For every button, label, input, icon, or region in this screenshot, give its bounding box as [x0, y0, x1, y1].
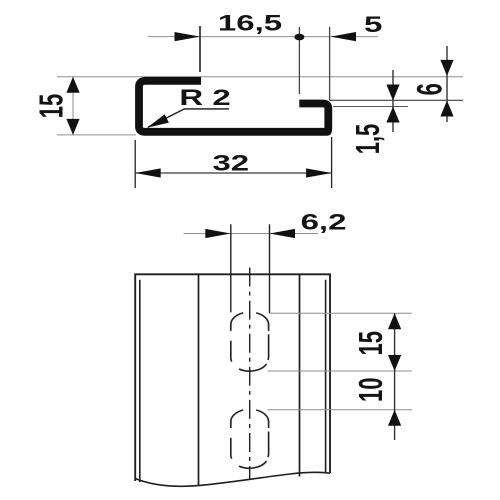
slot 1 bottom arc	[239, 364, 267, 371]
slot 2 bottom arc	[239, 461, 267, 468]
extension line 32 right (x=331.6)	[331, 137, 333, 188]
extension line 32 left (x=135.2)	[134, 140, 136, 188]
extension line slot2 top (y=409.7)	[268, 409, 413, 411]
rail front outline	[135, 274, 330, 481]
arrow dim 32 left (pointing left)	[135, 168, 161, 177]
arrow dim 6 bottom (pointing up)	[440, 101, 453, 117]
arrow slot dim middle (pointing down)	[388, 355, 401, 371]
extension line slot right (x=269.5)	[269, 224, 271, 313]
extension line hook underside (y=106.5)	[333, 106, 408, 108]
dimension line 16,5 / 5 (horizontal, y=36.6)	[148, 36, 378, 38]
fold line right (x=299.5)	[299, 274, 301, 476]
rolled edge line right (x=325.6)	[325, 280, 327, 473]
arrow dim 32 right (pointing right)	[306, 168, 332, 177]
slot 1 right side dash	[267, 334, 270, 360]
rail profile (thick C-section with hook)	[139, 81, 328, 132]
slot 2 top-right arc	[256, 410, 268, 428]
extension line hook top edge (y=100.5)	[330, 99, 463, 101]
dimension line 15 (vertical, x=73)	[72, 77, 74, 135]
svg-text:15: 15	[352, 331, 388, 355]
svg-text:R 2: R 2	[179, 86, 230, 110]
fold line left (x=198.5)	[198, 274, 200, 485]
arrow dim 6,2 left (pointing right)	[205, 229, 231, 238]
slot 2 top-left arc	[231, 410, 243, 428]
slot 2 right side dash	[267, 432, 270, 458]
svg-text:15: 15	[33, 94, 69, 118]
slot 1 top-left arc	[231, 313, 243, 331]
svg-text:10: 10	[353, 378, 389, 402]
svg-text:32: 32	[212, 151, 249, 175]
arrow dim 1,5 bottom (pointing up)	[386, 107, 399, 123]
slot 1 dashed obround	[231, 313, 269, 371]
arrow slot dim top (pointing up)	[388, 313, 401, 329]
leader line for R 2	[148, 109, 229, 127]
slot 2 left side dash	[230, 438, 233, 459]
svg-text:6: 6	[410, 83, 450, 95]
rolled edge line left (x=139.8)	[139, 280, 141, 482]
dot terminator of dim 16,5	[294, 34, 304, 41]
arrow dim 1,5 top (pointing down)	[386, 85, 399, 101]
slot 1 top-right arc	[256, 313, 268, 331]
svg-text:1,5: 1,5	[349, 124, 385, 155]
extension line top of rail profile (y=77)	[57, 76, 463, 78]
dimension line 6,2 (y=233.5)	[184, 233, 319, 235]
slot 1 left side dash	[230, 341, 233, 362]
arrow dim 15 down	[66, 119, 79, 135]
dimension line 15/10 (vertical, x=394.6)	[394, 313, 396, 440]
dimension line 32 (y=173)	[135, 172, 331, 174]
svg-text:16,5: 16,5	[218, 11, 282, 35]
extension line bottom of rail profile, left side (y=135)	[57, 134, 136, 136]
arrow dim 6,2 right (pointing left)	[270, 229, 296, 238]
extension line for dim 5 (x=329.6)	[329, 27, 331, 101]
svg-text:6,2: 6,2	[301, 210, 347, 234]
svg-text:5: 5	[364, 12, 382, 36]
wavy break line at bottom	[135, 472, 330, 486]
extension line at end of top flange (x=200)	[199, 26, 201, 72]
arrow dim 6 top (pointing down)	[440, 60, 453, 76]
extension line slot1 top (y=313.2)	[270, 312, 413, 314]
dimension line 1,5 (vertical, x=393)	[392, 70, 394, 132]
arrow dim 16,5 left (pointing right)	[175, 32, 201, 41]
dimension line 6 (vertical, x=447)	[446, 46, 448, 122]
extension line slot left (x=230.8)	[230, 224, 232, 312]
arrow slot dim bottom (pointing up)	[388, 410, 401, 426]
extension line slot1 bottom (y=371)	[268, 370, 413, 372]
extension line at slot center (x=299.4)	[298, 27, 300, 94]
centerline (dash-dot)	[249, 268, 251, 481]
slot 2 dashed obround	[231, 410, 269, 468]
arrow dim 5 right (pointing left)	[331, 32, 357, 41]
leader arrowhead R 2	[147, 114, 169, 128]
arrow dim 15 up	[66, 77, 79, 93]
